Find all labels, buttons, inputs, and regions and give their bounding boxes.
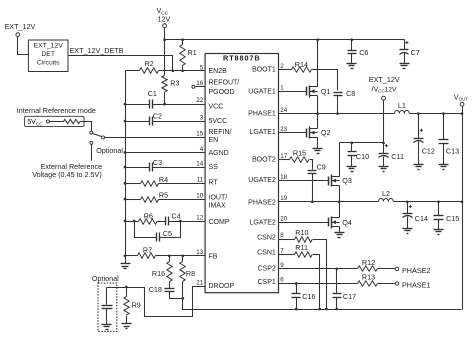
svg-text:PHASE1: PHASE1 [248,111,276,118]
svg-text:Optional: Optional [92,274,119,283]
svg-text:EN: EN [209,137,219,144]
svg-text:21: 21 [196,279,203,286]
svg-text:EXT_12V: EXT_12V [369,75,400,84]
svg-text:RT: RT [209,180,219,187]
svg-text:C15: C15 [446,214,459,223]
svg-text:6: 6 [280,277,284,284]
svg-text:20: 20 [280,215,287,222]
svg-text:CSP1: CSP1 [258,279,276,286]
svg-text:7: 7 [280,248,284,255]
svg-text:2: 2 [280,63,284,70]
svg-text:C12: C12 [422,146,435,155]
svg-text:PHASE1: PHASE1 [402,281,430,290]
svg-text:Q4: Q4 [342,218,352,227]
svg-text:C3: C3 [153,158,162,167]
svg-text:R14: R14 [295,60,308,69]
svg-text:C2: C2 [153,112,162,121]
svg-text:C6: C6 [359,48,368,57]
svg-text:C7: C7 [411,48,420,57]
svg-text:PHASE2: PHASE2 [402,266,430,275]
svg-text:AGND: AGND [209,150,229,157]
svg-text:C17: C17 [343,292,356,301]
svg-text:19: 19 [280,195,287,202]
svg-text:15: 15 [196,131,203,138]
svg-text:L1: L1 [398,101,406,110]
svg-text:R7: R7 [143,245,152,254]
svg-text:R13: R13 [362,273,375,282]
svg-text:22: 22 [196,97,203,104]
svg-text:17: 17 [280,153,287,160]
svg-text:R3: R3 [170,79,179,88]
svg-text:IOUT/: IOUT/ [209,195,228,202]
svg-text:C5: C5 [163,229,172,238]
svg-text:REFIN/: REFIN/ [209,129,232,136]
svg-text:UGATE2: UGATE2 [248,177,276,184]
svg-text:CSN2: CSN2 [257,235,276,242]
svg-text:Q2: Q2 [321,128,331,137]
svg-text:C1: C1 [148,89,157,98]
svg-text:R2: R2 [145,59,154,68]
svg-text:EXT_12V: EXT_12V [34,43,64,50]
svg-text:COMP: COMP [209,219,230,226]
svg-text:8: 8 [280,232,284,239]
svg-text:DROOP: DROOP [209,283,235,290]
svg-text:R15: R15 [293,149,306,158]
svg-text:BOOT2: BOOT2 [252,156,276,163]
svg-text:PHASE2: PHASE2 [248,199,276,206]
svg-text:R4: R4 [159,175,168,184]
svg-text:LGATE2: LGATE2 [249,219,275,226]
svg-text:IMAX: IMAX [209,203,226,210]
svg-text:R10: R10 [295,228,308,237]
svg-text:SS: SS [209,164,219,171]
svg-text:24: 24 [280,107,287,114]
svg-text:EXT_12V_DETB: EXT_12V_DETB [70,46,124,55]
svg-text:LGATE1: LGATE1 [249,129,275,136]
svg-text:Q1: Q1 [321,87,331,96]
svg-text:PGOOD: PGOOD [209,89,235,96]
svg-text:C8: C8 [346,89,355,98]
svg-text:23: 23 [280,126,287,133]
svg-text:BOOT1: BOOT1 [252,67,276,74]
svg-text:C16: C16 [302,292,315,301]
svg-text:5: 5 [200,64,204,71]
svg-text:EXT_12V: EXT_12V [5,22,36,31]
svg-text:CSP2: CSP2 [258,266,276,273]
svg-text:C14: C14 [415,214,428,223]
svg-text:Internal Reference mode: Internal Reference mode [17,106,96,115]
svg-text:L2: L2 [382,189,390,198]
svg-text:C11: C11 [391,152,404,161]
svg-text:R12: R12 [362,258,375,267]
svg-text:REFOUT/: REFOUT/ [209,80,240,87]
svg-text:10: 10 [196,192,203,199]
svg-text:C9: C9 [317,162,326,171]
svg-text:FB: FB [209,253,218,260]
svg-text:14: 14 [196,161,203,168]
svg-text:13: 13 [196,249,203,256]
svg-text:1: 1 [280,84,284,91]
svg-text:5VCC: 5VCC [209,118,228,125]
svg-text:9: 9 [280,262,284,269]
svg-text:3: 3 [200,115,204,122]
svg-text:R16: R16 [152,269,165,278]
svg-text:12V: 12V [158,14,171,23]
svg-text:12: 12 [196,215,203,222]
svg-text:C4: C4 [171,211,180,220]
svg-text:R5: R5 [159,190,168,199]
svg-text:11: 11 [197,177,204,184]
svg-text:16: 16 [196,80,203,87]
svg-text:R8: R8 [186,269,195,278]
svg-text:EN2B: EN2B [209,68,228,75]
svg-text:/VCC12V: /VCC12V [372,85,397,94]
svg-text:18: 18 [280,174,287,181]
svg-text:R9: R9 [132,301,141,310]
svg-text:UGATE1: UGATE1 [248,89,276,96]
svg-text:R11: R11 [295,243,308,252]
svg-text:VCC: VCC [209,103,224,110]
svg-text:DET: DET [41,51,55,58]
svg-text:CSN1: CSN1 [257,250,276,257]
svg-text:Optional: Optional [96,146,123,155]
svg-text:C18: C18 [149,285,162,294]
svg-text:C10: C10 [356,152,369,161]
svg-text:RT8807B: RT8807B [223,53,261,62]
svg-text:Voltage (0.45 to 2.5V): Voltage (0.45 to 2.5V) [32,170,102,179]
svg-text:Q3: Q3 [342,176,352,185]
svg-text:4: 4 [200,146,204,153]
svg-text:R6: R6 [144,212,153,221]
svg-text:Circuits: Circuits [37,60,60,67]
svg-text:C13: C13 [446,146,459,155]
svg-text:R1: R1 [188,48,197,57]
